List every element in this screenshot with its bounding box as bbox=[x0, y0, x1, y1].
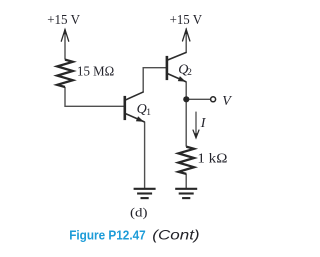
svg-text:(d): (d) bbox=[130, 204, 148, 219]
svg-text:I: I bbox=[200, 116, 207, 131]
svg-text:1: 1 bbox=[146, 108, 151, 118]
svg-text:(Cont): (Cont) bbox=[152, 227, 199, 242]
svg-text:+15 V: +15 V bbox=[47, 12, 80, 27]
svg-text:2: 2 bbox=[187, 68, 192, 78]
svg-text:+15 V: +15 V bbox=[170, 12, 203, 27]
svg-text:15 MΩ: 15 MΩ bbox=[77, 64, 114, 79]
svg-text:Q: Q bbox=[137, 102, 147, 117]
svg-text:V: V bbox=[222, 94, 232, 109]
svg-text:Figure P12.47: Figure P12.47 bbox=[69, 227, 146, 242]
svg-text:1 kΩ: 1 kΩ bbox=[197, 152, 227, 167]
